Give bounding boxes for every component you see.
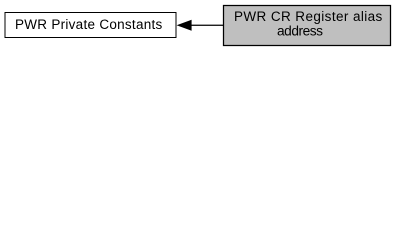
- svg-text:address: address: [277, 24, 323, 39]
- wire: edge line from grey box to arrowhead: [190, 24, 224, 26]
- background: [0, 0, 396, 51]
- node: PWR CR Register alias address (grey highlighted box): [224, 6, 391, 46]
- arrowhead pointing left into PWR Private Constants: [177, 20, 192, 31]
- svg-text:PWR Private Constants: PWR Private Constants: [15, 17, 163, 32]
- node: PWR Private Constants (white box): [5, 13, 176, 38]
- svg-text:PWR CR Register alias: PWR CR Register alias: [234, 9, 383, 24]
